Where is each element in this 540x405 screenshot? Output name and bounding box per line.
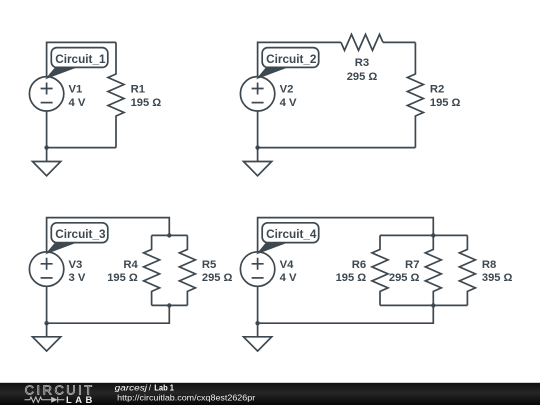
svg-text:http://circuitlab.com/cxq8est2: http://circuitlab.com/cxq8est2626pr — [117, 393, 255, 403]
wire C1 bottom rail — [47, 111, 116, 148]
ground GND1 — [33, 162, 61, 176]
svg-text:295 Ω: 295 Ω — [389, 272, 420, 284]
annotation label Circuit_2 box — [262, 48, 319, 68]
wire C3 bottom rail — [47, 286, 170, 323]
resistor R6 — [372, 235, 388, 305]
svg-text:LAB: LAB — [66, 394, 96, 405]
wire C3 parallel bottom bar — [152, 304, 188, 306]
resistor R4 — [144, 235, 160, 305]
svg-text:V3: V3 — [69, 259, 83, 271]
annotation label Circuit_3 tail — [47, 241, 80, 253]
annotation label Circuit_1 tail — [47, 66, 80, 78]
resistor R1 — [108, 42, 124, 147]
svg-text:R7: R7 — [405, 259, 419, 271]
junction node C3 bottom node — [167, 303, 171, 307]
annotation label Circuit_4 box — [262, 223, 319, 243]
svg-text:Circuit_4: Circuit_4 — [266, 227, 317, 241]
svg-text:295 Ω: 295 Ω — [347, 71, 378, 83]
svg-text:195 Ω: 195 Ω — [430, 97, 461, 109]
annotation label Circuit_1 box — [51, 48, 108, 68]
svg-text:R5: R5 — [202, 259, 216, 271]
wire C2 top rail left — [258, 42, 341, 76]
wire C4 top rail — [258, 218, 434, 252]
annotation label Circuit_2 tail — [258, 66, 291, 78]
svg-text:R2: R2 — [430, 84, 444, 96]
annotation label Circuit_3 box — [51, 223, 108, 243]
wire C4 parallel bottom bar — [380, 304, 467, 306]
svg-text:195 Ω: 195 Ω — [131, 97, 162, 109]
logo resistor squiggle — [25, 397, 52, 402]
svg-text:V4: V4 — [280, 259, 295, 271]
svg-text:3 V: 3 V — [69, 272, 86, 284]
svg-text:Circuit_1: Circuit_1 — [55, 52, 106, 66]
voltage source V1 — [29, 77, 63, 111]
resistor R5 — [179, 235, 195, 305]
resistor R3 — [341, 34, 383, 50]
annotation label Circuit_4 tail — [258, 241, 291, 253]
resistor R7 — [425, 235, 441, 305]
wire C4 ground stem — [257, 323, 259, 337]
voltage source V4 — [240, 252, 274, 286]
wire C3 parallel top bar — [152, 234, 188, 236]
junction node C3 ground junction — [44, 321, 48, 325]
wire C4 bottom rail — [258, 286, 434, 323]
junction node C4 bottom node — [431, 303, 435, 307]
junction node C2 ground junction — [255, 145, 259, 149]
wire C1 top rail — [47, 42, 116, 76]
svg-text:195 Ω: 195 Ω — [107, 272, 138, 284]
ground GND3 — [33, 337, 61, 351]
svg-text:4 V: 4 V — [280, 272, 297, 284]
svg-text:4 V: 4 V — [280, 97, 297, 109]
svg-text:4 V: 4 V — [69, 97, 86, 109]
wire C2 bottom rail — [258, 111, 416, 148]
wire C2 top rail right — [383, 41, 415, 43]
svg-text:195 Ω: 195 Ω — [336, 272, 367, 284]
wire C3 top rail — [47, 218, 170, 252]
svg-text:R3: R3 — [355, 57, 369, 69]
svg-text:R1: R1 — [131, 84, 145, 96]
svg-text:Circuit_3: Circuit_3 — [55, 227, 106, 241]
junction node C1 ground junction — [44, 145, 48, 149]
svg-text:V2: V2 — [280, 84, 294, 96]
svg-text:R6: R6 — [352, 259, 366, 271]
junction node C3 top node — [167, 233, 171, 237]
junction node C4 ground junction — [255, 321, 259, 325]
resistor R2 — [407, 42, 423, 147]
svg-text:R4: R4 — [123, 259, 138, 271]
svg-text:Lab 1: Lab 1 — [154, 384, 174, 393]
wire C3 ground stem — [46, 323, 48, 337]
svg-text:295 Ω: 295 Ω — [202, 272, 233, 284]
wire C1 ground stem — [46, 148, 48, 162]
svg-text:garcesj: garcesj — [115, 384, 148, 393]
svg-text:Circuit_2: Circuit_2 — [266, 52, 317, 66]
logo diode — [51, 397, 57, 403]
wire C4 parallel top bar — [380, 234, 467, 236]
wire C2 ground stem — [257, 148, 259, 162]
junction node C4 top node — [431, 233, 435, 237]
svg-text:395 Ω: 395 Ω — [482, 272, 513, 284]
voltage source V3 — [29, 252, 63, 286]
ground GND4 — [244, 337, 272, 351]
resistor R8 — [459, 235, 475, 305]
svg-text:R8: R8 — [482, 259, 496, 271]
ground GND2 — [244, 162, 272, 176]
svg-text:V1: V1 — [69, 84, 83, 96]
voltage source V2 — [240, 77, 274, 111]
